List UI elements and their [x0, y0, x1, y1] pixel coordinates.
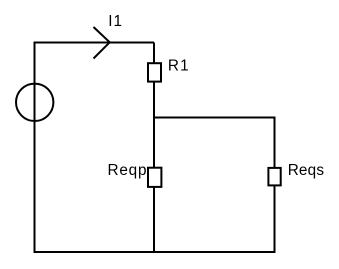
- resistor R1: [148, 63, 161, 81]
- svg-text:R1: R1: [168, 58, 190, 75]
- resistor Reqp: [148, 168, 161, 187]
- svg-text:Reqp: Reqp: [108, 162, 148, 179]
- wire right vertical: [274, 117, 276, 254]
- wire top horizontal: [35, 42, 155, 44]
- wire middle branch vertical: [153, 43, 155, 254]
- arrow I1 (current direction): [94, 27, 110, 59]
- wire middle horizontal: [153, 117, 276, 119]
- resistor Reqs: [268, 168, 280, 186]
- current source I1 (circle): [16, 84, 53, 121]
- svg-text:I1: I1: [108, 13, 123, 30]
- svg-text:Reqs: Reqs: [288, 162, 325, 179]
- wire left vertical: [34, 42, 36, 254]
- wire bottom horizontal: [34, 251, 276, 253]
